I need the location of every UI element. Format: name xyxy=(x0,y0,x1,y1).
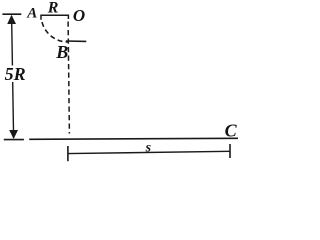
dimension 5R: top reference bar xyxy=(2,13,21,15)
svg-text:5R: 5R xyxy=(5,64,26,84)
top edge A-O with end ticks xyxy=(41,15,68,20)
svg-text:A: A xyxy=(26,6,37,22)
svg-text:R: R xyxy=(47,0,59,17)
dimension s: left tick xyxy=(67,146,69,161)
dimension 5R: lower arrowhead xyxy=(9,130,18,139)
dimension 5R: upper arrowhead xyxy=(7,15,16,24)
svg-text:B: B xyxy=(55,42,68,62)
ledge line at B xyxy=(66,40,87,42)
dimension s: horizontal line xyxy=(68,151,230,153)
dimension 5R: vertical shaft xyxy=(12,16,14,138)
dashed vertical drop line from O to ground xyxy=(68,22,69,134)
svg-text:O: O xyxy=(73,6,85,25)
dimension s: right tick xyxy=(229,144,231,158)
svg-text:C: C xyxy=(225,121,238,141)
dimension 5R: bottom reference bar xyxy=(4,139,24,141)
ground line xyxy=(29,138,238,139)
svg-text:s: s xyxy=(145,140,152,155)
dashed quarter-circle arc A to B xyxy=(42,20,68,42)
label 5R xyxy=(4,66,27,83)
